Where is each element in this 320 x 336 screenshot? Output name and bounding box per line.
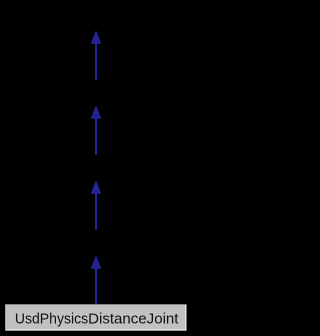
inheritance arrow 3 (91, 180, 102, 230)
node UsdPhysicsDistanceJoint (current class, filled box) (5, 304, 186, 330)
inheritance arrow 4 (into bottom node) (91, 255, 102, 305)
svg-text:UsdPhysicsDistanceJoint: UsdPhysicsDistanceJoint (15, 312, 179, 328)
inheritance graph canvas (0, 0, 192, 336)
inheritance arrow 2 (91, 105, 102, 155)
inheritance arrow 1 (topmost) (91, 30, 102, 80)
